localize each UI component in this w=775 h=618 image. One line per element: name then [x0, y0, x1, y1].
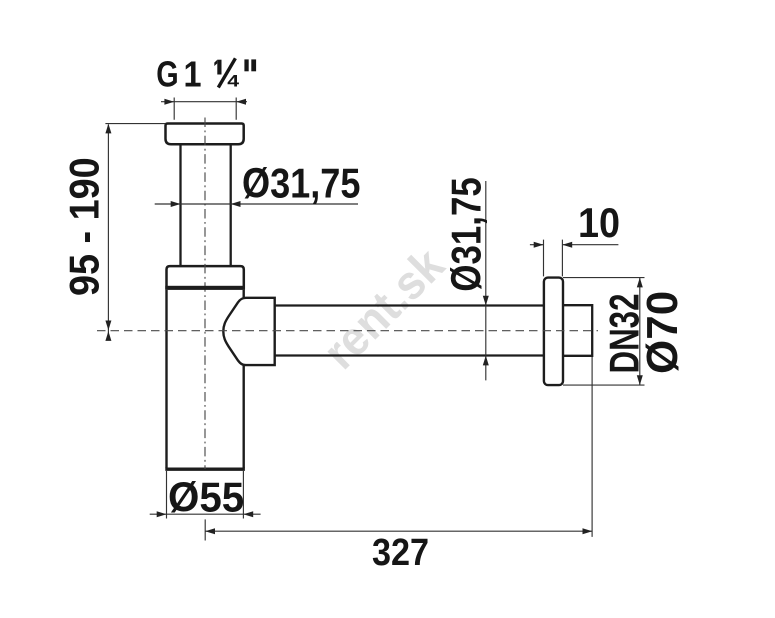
label 95 - 190 — [62, 157, 108, 296]
svg-text:4: 4 — [227, 72, 239, 91]
dimension diameter 31,75 top: left arrow — [171, 201, 181, 207]
label 327 — [372, 530, 429, 573]
dimension 10: extension lines — [544, 240, 563, 277]
dimension G: left arrow — [164, 99, 174, 105]
dimension 327: right arrow — [583, 528, 593, 534]
dimension 95-190: top extension line — [105, 123, 165, 125]
svg-text:Ø55: Ø55 — [168, 474, 244, 521]
wire: vertical dash-dot centerline of trap — [204, 118, 206, 470]
top flange (G 1 1/4 inlet nut) — [166, 124, 244, 145]
svg-text:1: 1 — [184, 55, 202, 95]
dimension 327: left arrow — [205, 528, 215, 534]
dimension G: extension lines — [174, 98, 236, 120]
dimension 95-190: top arrow — [105, 124, 111, 134]
svg-text:rent.sk: rent.sk — [313, 237, 455, 379]
label G 1 1/4" — [156, 53, 178, 94]
svg-text:10: 10 — [578, 200, 620, 246]
dimension diameter 55: left arrow — [157, 511, 167, 517]
label fraction numerator 1 — [217, 60, 221, 75]
label diameter 70 (rotated) — [638, 291, 687, 374]
label thread size digit 1 — [184, 55, 202, 95]
dimension diameter 31,75 outlet: bottom arrow — [483, 356, 489, 366]
label 10 — [578, 200, 620, 246]
dimension 10: right arrow — [562, 242, 572, 248]
wall pipe stub — [563, 305, 592, 356]
outlet pipe bottom wall — [260, 354, 544, 356]
dimension diameter 70: bottom arrow — [637, 375, 643, 385]
dimension diameter 70: top arrow — [637, 278, 643, 288]
label fraction slash — [218, 58, 235, 87]
label diameter 31,75 top — [242, 161, 360, 207]
label fraction denominator 4 — [227, 72, 239, 91]
trap union nut — [167, 266, 244, 289]
label diameter 31,75 outlet (rotated) — [444, 177, 491, 291]
svg-text:Ø70: Ø70 — [638, 291, 687, 374]
dimension G: right arrow — [236, 99, 246, 105]
svg-text:95 - 190: 95 - 190 — [62, 157, 108, 296]
dimension 95-190: line — [107, 125, 109, 340]
dimension diameter 31,75 outlet: top arrow — [483, 296, 489, 306]
inlet pipe left wall — [179, 144, 181, 266]
inlet pipe right wall — [230, 144, 232, 266]
label diameter 55 — [168, 474, 244, 521]
dimension 95-190: bottom double arrow upper — [105, 321, 111, 331]
wall flange — [544, 278, 563, 386]
outlet pipe top wall — [260, 304, 544, 306]
dimension G: line — [161, 101, 247, 103]
dimension diameter 70: extension lines — [563, 278, 645, 386]
dimension 10: left line — [530, 244, 544, 246]
elbow bulge connector — [223, 298, 274, 365]
svg-text:Ø31,75: Ø31,75 — [242, 161, 360, 207]
dimension 10: right line — [562, 244, 618, 246]
dimension 327: line — [205, 530, 592, 532]
wire: horizontal dashed centerline of outlet pipe — [97, 330, 598, 332]
svg-text:G: G — [156, 53, 178, 94]
dimension diameter 31,75 top: right arrow — [231, 201, 241, 207]
watermark rent.sk — [313, 237, 455, 379]
svg-text:327: 327 — [372, 530, 429, 573]
dimension 327: left extension line — [204, 519, 206, 540]
trap union nut dark band — [165, 286, 245, 290]
dimension 10: left arrow — [534, 242, 544, 248]
dimension diameter 55: extension lines — [167, 471, 244, 519]
dimension diameter 55: line — [150, 513, 261, 515]
trap cup bottom — [165, 468, 245, 471]
dimension 95-190: bottom double arrow lower — [105, 331, 111, 341]
dimension diameter 31,75 outlet: line — [485, 181, 487, 380]
dimension diameter 31,75 top: line — [155, 203, 358, 205]
label inch marks — [244, 59, 248, 71]
label DN32 (rotated) — [600, 294, 648, 374]
dimension 327: right extension line — [591, 357, 593, 537]
trap cup body — [167, 290, 244, 468]
svg-text:Ø31,75: Ø31,75 — [444, 177, 491, 291]
dimension diameter 55: right arrow — [243, 511, 253, 517]
dimension diameter 70: line — [639, 278, 641, 385]
